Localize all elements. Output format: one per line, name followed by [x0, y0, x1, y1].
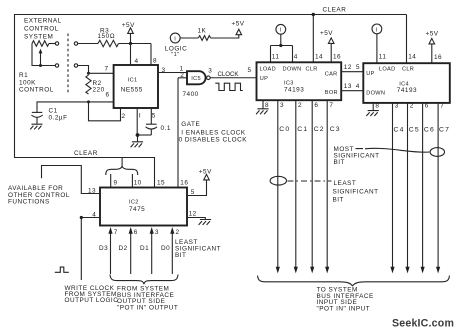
svg-text:+5V: +5V [122, 22, 135, 29]
svg-text:+5V: +5V [232, 21, 245, 28]
resistor 1K [198, 36, 210, 41]
svg-text:C3: C3 [330, 126, 341, 133]
wire: CLEAR bus top run [15, 14, 407, 16]
counter IC3 74193 box [257, 62, 342, 100]
brace: under IC2 inputs [110, 275, 178, 285]
svg-text:4: 4 [92, 211, 96, 218]
power: +5V arrow above IC1 [130, 33, 132, 43]
resistor R2 [86, 75, 91, 94]
svg-text:11: 11 [272, 53, 280, 60]
wire: IC3 output C1 (pin 2) [295, 100, 297, 267]
svg-text:5: 5 [248, 67, 252, 74]
svg-text:7: 7 [440, 103, 444, 110]
boundary: dashed separator [67, 34, 69, 93]
wire: gate input 2 stub [178, 77, 187, 79]
svg-text:3: 3 [155, 229, 159, 236]
brace: under counter outputs [258, 276, 450, 286]
svg-text:CLOCK: CLOCK [218, 71, 239, 78]
svg-text:150Ω: 150Ω [98, 33, 116, 40]
wire: IC1 pin 7 stub [89, 72, 114, 74]
terminal: R1 lower [55, 64, 58, 67]
wire: write clock vertical [80, 218, 82, 281]
svg-text:+5V: +5V [426, 30, 439, 37]
svg-text:8: 8 [153, 58, 157, 65]
svg-text:16: 16 [180, 179, 188, 186]
svg-text:BIT: BIT [333, 197, 344, 204]
wire: IC2 pin 9 stub [110, 174, 112, 188]
wire: IC1 pin 6 stub [89, 101, 114, 103]
wire: IC4 pin 11 stub [376, 34, 378, 63]
ground: IC4 pin 8 [366, 111, 378, 116]
wire: CLEAR pigtail to brace over IC2 pins 9,10 [121, 158, 123, 166]
legend circle: logic 1 at IC3 LOAD/DOWN [276, 24, 286, 34]
wire: logic 1 to 1K [180, 37, 198, 39]
svg-text:220: 220 [93, 87, 105, 94]
power: +5V arrow (IC2) [204, 174, 210, 180]
svg-text:C1: C1 [49, 108, 58, 115]
svg-text:I ENABLES CLOCK: I ENABLES CLOCK [181, 130, 246, 137]
svg-text:CONTROL: CONTROL [24, 25, 59, 32]
svg-text:5: 5 [356, 64, 360, 71]
terminal: oscillator input lower [74, 64, 77, 67]
terminal: R1 upper [55, 42, 58, 45]
wire: lower terminal to IC1 pin 7 [78, 66, 89, 74]
svg-text:SIGNIFICANT: SIGNIFICANT [333, 188, 379, 195]
svg-text:0.2µF: 0.2µF [49, 115, 68, 122]
svg-text:2: 2 [122, 113, 126, 120]
node: pin1/C junction [136, 133, 140, 137]
ground: below C1 [30, 124, 42, 129]
ground: IC1 pin 1 [131, 135, 144, 147]
node: R1 wiper junction [39, 64, 42, 67]
power: +5V arrow (legend) [236, 29, 242, 35]
node: +5V junction [129, 42, 132, 45]
wire: IC3 output C3 (pin 7) [326, 100, 328, 267]
wire: IC3 output C0 (pin 3) [277, 100, 279, 267]
svg-text:I: I [174, 36, 176, 42]
svg-text:BOR: BOR [325, 90, 338, 96]
svg-text:CLR: CLR [402, 67, 414, 73]
waveform: write clock pulse [55, 267, 69, 272]
svg-text:4: 4 [135, 58, 139, 65]
svg-text:+5V: +5V [320, 30, 333, 37]
svg-text:6: 6 [314, 102, 318, 109]
svg-text:D0: D0 [161, 245, 170, 252]
svg-text:0.1: 0.1 [161, 125, 171, 132]
svg-text:74193: 74193 [284, 86, 304, 93]
wire: IC4 output C6 (pin 6) [422, 103, 424, 267]
svg-text:C4: C4 [394, 127, 405, 134]
svg-text:16: 16 [434, 54, 442, 61]
svg-text:7475: 7475 [129, 206, 145, 213]
power: +5V arrow (IC3 pin 16) [330, 44, 332, 63]
node: pin 6 / C1 junction [87, 100, 90, 103]
svg-text:2: 2 [410, 103, 414, 110]
legend: logic 1 circle [170, 33, 180, 43]
wire: IC2 input D3 with arrow [110, 229, 112, 274]
wire: IC2 pin 13 to spare stub [42, 166, 101, 194]
op IC1 NE555 box [114, 65, 158, 108]
svg-text:UP: UP [260, 76, 268, 82]
callout: dashes from C0 ellipse to LEAST [288, 180, 332, 182]
legend circle: logic 1 at IC4 LOAD [372, 24, 382, 34]
svg-text:EXTERNAL: EXTERNAL [24, 17, 62, 24]
svg-text:14: 14 [315, 53, 323, 60]
wire: IC2 pin 4 stub [81, 217, 100, 219]
svg-text:C5: C5 [409, 127, 420, 134]
svg-text:LEAST: LEAST [334, 180, 357, 187]
wire: bracket joining IC3 pins 11 and 4 [271, 45, 293, 47]
wire: CLEAR drop to IC4 pin 14 [406, 15, 408, 64]
svg-text:3: 3 [208, 67, 212, 74]
node: IC2 pin 4 / write clock junction [80, 216, 83, 219]
svg-text:7: 7 [329, 102, 333, 109]
callout: ellipse around C0 line [270, 176, 286, 185]
callout: ellipse around C7 line [430, 148, 444, 157]
svg-text:D2: D2 [119, 245, 128, 252]
svg-text:C6: C6 [424, 127, 435, 134]
wire: R1 left lead [32, 44, 55, 66]
wire: IC2 input D1 with arrow [151, 229, 153, 274]
svg-text:10: 10 [134, 179, 142, 186]
svg-text:8: 8 [265, 102, 269, 109]
wire: circle to bracket [280, 34, 282, 45]
wire: CLEAR bus left vertical [14, 14, 16, 158]
svg-text:4: 4 [294, 53, 298, 60]
wire: pin 6 node down to IC1 pin 2 [89, 102, 121, 121]
svg-text:+5V: +5V [199, 168, 212, 175]
svg-text:C0: C0 [279, 126, 290, 133]
wire: junction to capacitor C1 [37, 102, 89, 112]
svg-text:0 DISABLES CLOCK: 0 DISABLES CLOCK [179, 137, 248, 144]
svg-text:2: 2 [180, 72, 184, 79]
svg-text:LOAD: LOAD [260, 66, 276, 72]
svg-text:C7: C7 [439, 127, 450, 134]
svg-text:C2: C2 [314, 126, 325, 133]
wire: IC4 pin 8 to ground [372, 103, 374, 111]
svg-text:GATE: GATE [181, 121, 200, 128]
callout: line from MOST to C7 [356, 148, 430, 152]
svg-text:2: 2 [176, 229, 180, 236]
wire: IC3 pin 4 stub [292, 46, 294, 63]
svg-text:BIT: BIT [334, 159, 345, 166]
svg-text:D3: D3 [99, 245, 108, 252]
wire: R3 to +5V node and pin 8 corner [119, 43, 152, 45]
svg-text:IC5: IC5 [191, 76, 201, 82]
node: CLEAR junction above IC3 pin 14 [312, 13, 315, 16]
wire: IC1 pin 8 stub [150, 44, 152, 66]
wire: IC2 pin 5 to +5V [187, 180, 207, 196]
ground: IC3 pin 8 [256, 109, 269, 114]
svg-text:I: I [139, 112, 141, 119]
wire: IC2 input D0 with arrow [171, 229, 173, 274]
wire: IC1 pin 5 stub [150, 108, 152, 124]
svg-text:I: I [376, 27, 378, 33]
svg-text:9: 9 [114, 179, 118, 186]
wire: CLEAR drop to IC3 pin 14 [312, 15, 314, 63]
resistor R3 [98, 40, 119, 46]
svg-text:C1: C1 [297, 126, 308, 133]
wire: R1 top right lead [49, 43, 55, 45]
svg-text:14: 14 [408, 53, 416, 60]
wire: IC3 pin 11 stub [270, 46, 272, 63]
svg-text:13: 13 [88, 187, 96, 194]
node: bracket junction [279, 44, 282, 47]
svg-text:IC1: IC1 [128, 78, 138, 84]
svg-text:6: 6 [106, 92, 110, 99]
wire: IC2 input D2 with arrow [130, 229, 132, 274]
svg-text:AVAILABLE FOR: AVAILABLE FOR [8, 185, 63, 192]
wire: IC2 pin 10 stub [131, 174, 133, 188]
wire: IC4 output C7 (pin 7) [437, 103, 439, 267]
svg-text:LOAD: LOAD [379, 67, 395, 73]
svg-text:BIT: BIT [175, 252, 186, 259]
svg-text:7400: 7400 [183, 91, 199, 98]
svg-text:DOWN: DOWN [366, 91, 385, 97]
ground: IC2 pin 12 [199, 220, 212, 225]
wire: clock line to IC3 UP pin 5 [210, 77, 256, 79]
wire: IC1 pin 3 to gate input 1 [158, 72, 187, 74]
waveform: clock square wave [215, 83, 242, 90]
wire: junction to C bottom [138, 134, 152, 136]
svg-text:R1: R1 [19, 72, 28, 79]
svg-text:6: 6 [425, 103, 429, 110]
svg-text:UP: UP [366, 71, 374, 77]
svg-text:"POT IN" INPUT: "POT IN" INPUT [317, 306, 371, 313]
svg-text:4: 4 [356, 83, 360, 90]
wire: upper terminal to R3 [78, 43, 98, 45]
wire: IC2 pin 12 to ground [187, 218, 205, 220]
power: +5V arrow (IC4 pin 16) [431, 44, 433, 63]
svg-text:5: 5 [152, 112, 156, 119]
svg-text:"POT IN" OUTPUT: "POT IN" OUTPUT [117, 304, 178, 311]
wire: BOR to IC4 DOWN [341, 90, 363, 92]
nand gate IC5 [187, 71, 206, 84]
svg-text:CAR: CAR [325, 71, 338, 77]
svg-text:CLEAR: CLEAR [74, 150, 98, 157]
wire: IC4 output C4 (pin 3) [392, 103, 394, 267]
wire: IC1 pin 1 to ground [136, 108, 138, 135]
wire: CAR to IC4 UP [341, 71, 363, 73]
wire: CLEAR bus lower run to IC2 pin 15 [14, 158, 155, 188]
wire: R1 wiper arrow [40, 53, 42, 66]
potentiometer R1 [32, 41, 49, 47]
svg-text:11: 11 [379, 53, 387, 60]
node: pin 7 / R2 junction [87, 72, 90, 75]
svg-text:SYSTEM: SYSTEM [24, 33, 53, 40]
svg-text:D1: D1 [140, 245, 149, 252]
wire: IC4 output C5 (pin 2) [407, 103, 409, 267]
svg-text:13: 13 [344, 83, 352, 90]
svg-text:3: 3 [395, 103, 399, 110]
svg-text:CLR: CLR [306, 66, 318, 72]
svg-text:8: 8 [375, 103, 379, 110]
svg-text:"1": "1" [171, 52, 179, 58]
wire: IC1 pin 4 stub [130, 44, 132, 66]
capacitor C1 [32, 111, 43, 113]
svg-text:CLEAR: CLEAR [323, 7, 347, 14]
capacitor 0.1 on pin 5 [146, 123, 157, 125]
svg-text:12: 12 [189, 210, 197, 217]
svg-text:I: I [280, 28, 282, 34]
wire: GATE line from gate input 2 down to IC2 pin 16 [177, 78, 179, 188]
wire: 1K to +5V [211, 35, 239, 38]
svg-text:12: 12 [344, 64, 352, 71]
svg-text:2: 2 [298, 102, 302, 109]
svg-text:1K: 1K [198, 28, 207, 35]
svg-text:IC2: IC2 [129, 200, 139, 206]
svg-text:6: 6 [134, 229, 138, 236]
counter IC4 74193 box [363, 63, 450, 103]
terminal: oscillator input upper [74, 42, 77, 45]
svg-text:CONTROL: CONTROL [19, 86, 54, 93]
wire: brace joining IC2 pins 9 and 10 [106, 166, 138, 175]
svg-text:7: 7 [114, 229, 118, 236]
svg-text:16: 16 [333, 53, 341, 60]
svg-text:5: 5 [191, 189, 195, 196]
svg-text:DOWN: DOWN [283, 66, 302, 72]
svg-text:7: 7 [105, 66, 109, 73]
svg-text:FUNCTIONS: FUNCTIONS [8, 199, 50, 206]
svg-text:NE555: NE555 [121, 87, 143, 94]
svg-text:15: 15 [157, 179, 165, 186]
svg-text:SeekIC.com: SeekIC.com [392, 317, 454, 329]
latch IC2 7475 box [100, 188, 187, 226]
svg-text:3: 3 [280, 102, 284, 109]
svg-text:OUTPUT LOGIC: OUTPUT LOGIC [65, 297, 119, 304]
svg-text:3: 3 [162, 67, 166, 74]
wire: IC3 pin 8 to ground [262, 100, 264, 108]
wire: IC3 output C2 (pin 6) [311, 100, 313, 267]
svg-text:74193: 74193 [397, 87, 417, 94]
